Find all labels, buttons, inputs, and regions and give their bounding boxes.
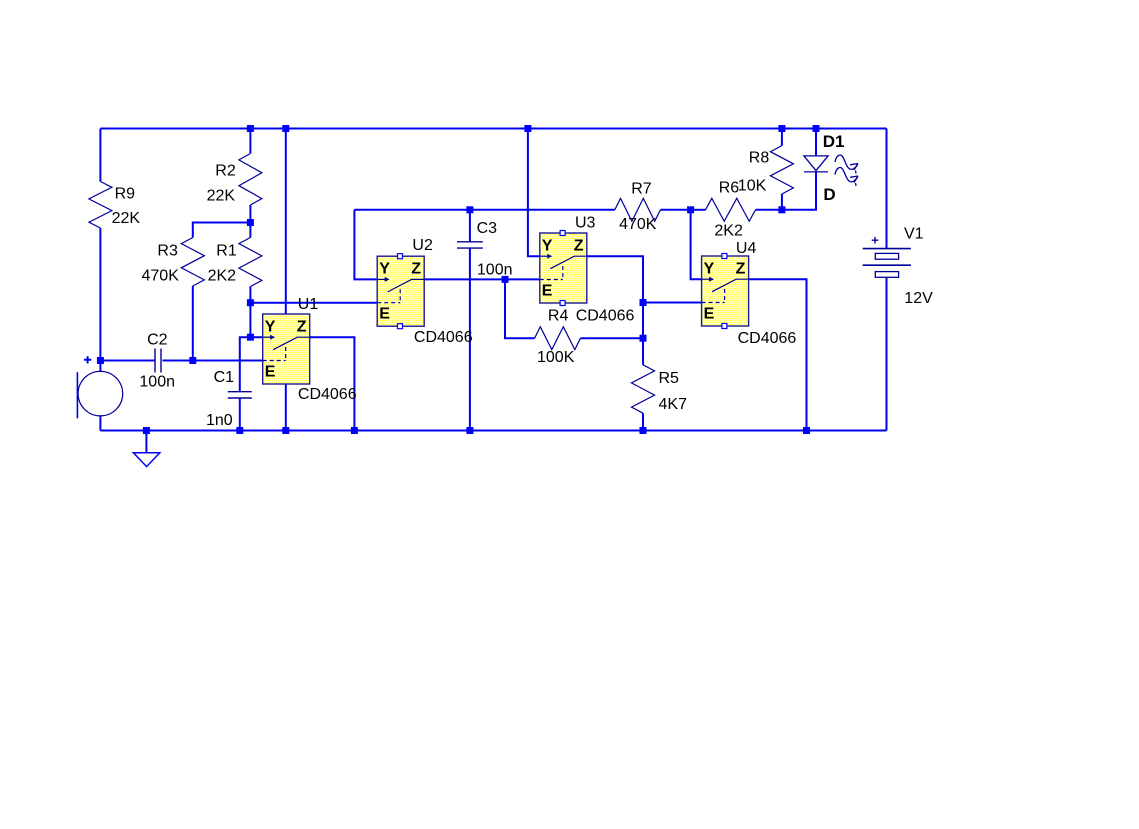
svg-text:12V: 12V [904, 290, 933, 307]
battery plus sign [872, 237, 879, 244]
wire U1 Y node to C1 top [240, 337, 251, 392]
svg-text:4K7: 4K7 [659, 396, 688, 413]
wire node to R3 top [193, 223, 251, 238]
resistor R6 [706, 198, 756, 221]
svg-text:R1: R1 [216, 243, 237, 260]
label U2 [412, 237, 433, 254]
wire U1 bottom pin to rail [285, 384, 287, 431]
svg-text:U1: U1 [298, 296, 319, 313]
diode D1 [804, 156, 828, 172]
resistor R3 [181, 238, 204, 287]
wire R9 bottom lead to mic node [99, 228, 101, 361]
junction ground rail / U1 Z [351, 427, 358, 434]
svg-text:Y: Y [379, 261, 390, 278]
junction ground rail / U4 Z [803, 427, 810, 434]
wire battery negative lead [886, 277, 888, 430]
type CD4066 of U3 [576, 308, 635, 325]
svg-text:CD4066: CD4066 [576, 308, 635, 325]
svg-text:U4: U4 [736, 240, 757, 257]
junction R6-R8-D1 node [778, 206, 785, 213]
svg-text:E: E [704, 305, 715, 322]
wire mid rail: U2 Y riser to R7 [354, 209, 614, 211]
svg-text:100K: 100K [537, 349, 575, 366]
type CD4066 of U2 [414, 329, 473, 346]
svg-text:CD4066: CD4066 [298, 386, 357, 403]
wire R4 right lead to node [581, 337, 644, 339]
wire C1 bottom lead [239, 398, 241, 431]
wire C3 bottom lead to ground rail [469, 248, 471, 430]
U3 unconnected pin markers [560, 231, 565, 306]
wire ground stem [145, 431, 147, 453]
junction mic plus node [97, 357, 104, 364]
value 2K2 of R1 [208, 268, 237, 285]
svg-text:CD4066: CD4066 [738, 330, 797, 347]
label U3 [575, 214, 596, 231]
value 100K of R4 [537, 349, 575, 366]
junction ground rail / R5 [640, 427, 647, 434]
wire mic plus stem [99, 361, 101, 373]
U4 unconnected pin markers [722, 254, 727, 329]
junction ground rail / C1 [236, 427, 243, 434]
resistor R9 [89, 182, 112, 229]
resistor R1 [239, 238, 262, 287]
svg-text:R4: R4 [548, 308, 569, 325]
wire R1 bottom lead [249, 287, 251, 303]
svg-text:Y: Y [704, 260, 715, 277]
junction top rail / D1 [813, 125, 820, 132]
wire node 505 down to R4 left [505, 279, 535, 338]
resistor R8 [770, 146, 793, 194]
wire node 505 to U3 E pin [505, 278, 540, 280]
wire bottom ground rail [100, 430, 886, 432]
junction top rail / U3 drop [524, 125, 531, 132]
capacitor C3 [457, 242, 483, 248]
wire U2 Y pin from mid rail [354, 210, 390, 280]
junction R1 bottom / U1 wire [247, 299, 254, 306]
wire node U1: R1 bottom to U2 E pin [250, 302, 377, 304]
label R3 [157, 243, 178, 260]
wire U4 E node to U4 E pin [643, 302, 702, 304]
resistor R7 [615, 198, 661, 221]
svg-text:2K2: 2K2 [714, 223, 743, 240]
svg-text:E: E [265, 363, 276, 380]
svg-text:Z: Z [574, 237, 584, 254]
value 2K2 of R6 [714, 223, 743, 240]
battery V1 [863, 249, 911, 278]
analog switch U2 [377, 256, 424, 326]
wire R6 right lead to R8 node [756, 209, 782, 211]
junction ground rail / C3 [466, 427, 473, 434]
svg-text:10K: 10K [738, 177, 767, 194]
label R1 [216, 243, 237, 260]
U2 unconnected pin markers [398, 254, 403, 329]
label R7 [631, 181, 652, 198]
resistor R4 [535, 327, 581, 350]
label C1 [214, 369, 235, 386]
wire battery positive lead [886, 129, 888, 249]
type CD4066 of U4 [738, 330, 797, 347]
label R8 [749, 149, 770, 166]
svg-text:D1: D1 [823, 132, 845, 151]
microphone MIC1 body [78, 371, 123, 416]
junction U3 Z / U4 E node [640, 299, 647, 306]
value 4K7 of R5 [659, 396, 688, 413]
wire R1 node down to U1 Y node [249, 303, 251, 338]
label C2 [147, 332, 168, 349]
svg-text:R5: R5 [659, 370, 680, 387]
svg-text:V1: V1 [904, 226, 924, 243]
svg-text:E: E [379, 306, 390, 323]
value 1n0 of C1 [206, 412, 233, 429]
value 100n of C3 [477, 261, 513, 278]
wire top power rail [100, 128, 886, 130]
svg-text:Z: Z [297, 318, 307, 335]
label D1 [823, 132, 845, 151]
svg-text:C2: C2 [147, 332, 168, 349]
wire R8 bottom lead [781, 194, 783, 210]
svg-text:Z: Z [736, 260, 746, 277]
wire C2 row: mic node to C2 left plate [100, 360, 154, 362]
wire R1 top lead [249, 223, 251, 238]
resistor R5 [632, 365, 655, 413]
junction top rail / R2 [247, 125, 254, 132]
label R4 [548, 308, 569, 325]
junction R3 bottom / C2 row [189, 357, 196, 364]
junction U2 Z / U3 E / R4 node [502, 276, 509, 283]
wire U3 Y drop from top rail [528, 129, 553, 257]
pin label D of D1 [823, 185, 835, 204]
wire C3 top lead [469, 210, 471, 242]
wire R2 top lead [249, 129, 251, 154]
svg-text:R7: R7 [631, 181, 652, 198]
svg-text:R9: R9 [115, 186, 136, 203]
label U4 [736, 240, 757, 257]
wire U1 top pin from rail [285, 129, 287, 315]
svg-text:Y: Y [265, 318, 276, 335]
svg-text:Z: Z [411, 261, 421, 278]
junction mid rail / C3 [466, 206, 473, 213]
wire mic bottom lead [99, 416, 101, 431]
analog switch U1 [263, 314, 310, 384]
svg-text:470K: 470K [619, 216, 657, 233]
label U1 [298, 296, 319, 313]
junction R4-R5 node [640, 335, 647, 342]
wire U4 E node down to R4 node [642, 303, 644, 339]
wire U1 Z output down to ground rail [310, 337, 355, 430]
capacitor C1 [228, 392, 252, 398]
label R2 [215, 162, 236, 179]
junction ground rail / U1 bottom [282, 427, 289, 434]
junction ground rail / ground symbol [143, 427, 150, 434]
svg-text:1n0: 1n0 [206, 412, 233, 429]
junction R2-R1-R3 node [247, 219, 254, 226]
wire node to R6 left lead [691, 209, 706, 211]
microphone MIC1 side bar [76, 372, 78, 418]
LED light arrow 1 [835, 155, 858, 173]
microphone plus terminal [84, 356, 91, 363]
junction U1 Y node [247, 334, 254, 341]
resistor R2 [239, 154, 262, 206]
svg-text:D: D [823, 185, 835, 204]
svg-text:R8: R8 [749, 149, 770, 166]
svg-text:C3: C3 [477, 220, 498, 237]
value 470K of R3 [142, 268, 180, 285]
wire R7 right lead to node [660, 209, 690, 211]
value 470K of R7 [619, 216, 657, 233]
svg-text:U3: U3 [575, 214, 596, 231]
svg-text:C1: C1 [214, 369, 235, 386]
svg-text:CD4066: CD4066 [414, 329, 473, 346]
svg-text:22K: 22K [112, 210, 141, 227]
value 10K of R8 [738, 177, 767, 194]
type CD4066 of U1 [298, 386, 357, 403]
wire R4 node down to R5 top [642, 338, 644, 365]
svg-text:R3: R3 [157, 243, 178, 260]
LED light arrow 2 [835, 168, 858, 186]
junction top rail / U1 top [282, 125, 289, 132]
wire U3 Z output to U4 E node [587, 256, 643, 302]
svg-text:R2: R2 [215, 162, 236, 179]
wire D1 anode lead [815, 129, 817, 156]
junction top rail / R8 [778, 125, 785, 132]
wire R9 top lead [99, 129, 101, 182]
svg-text:R6: R6 [719, 179, 740, 196]
wire R8 node to D1 cathode [782, 172, 816, 210]
label C3 [477, 220, 498, 237]
ground [133, 453, 159, 467]
value 22K of R2 [207, 187, 236, 204]
wire R2 bottom lead to node [249, 205, 251, 223]
wire U4 Z output down to ground rail [749, 279, 807, 430]
value 22K of R9 [112, 210, 141, 227]
svg-text:22K: 22K [207, 187, 236, 204]
svg-text:E: E [542, 282, 553, 299]
svg-text:470K: 470K [142, 268, 180, 285]
label R9 [115, 186, 136, 203]
wire R8 top lead [781, 129, 783, 146]
svg-text:100n: 100n [139, 374, 175, 391]
svg-text:U2: U2 [412, 237, 433, 254]
wire R5 bottom lead [642, 413, 644, 430]
label R5 [659, 370, 680, 387]
wire U2 Z to node 505 [424, 278, 505, 280]
svg-text:2K2: 2K2 [208, 268, 237, 285]
value 100n of C2 [139, 374, 175, 391]
junction R7-R6 / U4 Y drop [687, 206, 694, 213]
wire C2 right plate to R3 node and U1 E pin [163, 360, 263, 362]
label R6 [719, 179, 740, 196]
capacitor C2 [155, 349, 161, 373]
svg-text:Y: Y [542, 237, 553, 254]
analog switch U3 [540, 233, 587, 303]
wire R3 bottom lead [192, 286, 194, 361]
analog switch U4 [702, 256, 749, 326]
value 12V of V1 [904, 290, 933, 307]
label V1 [904, 226, 924, 243]
svg-text:100n: 100n [477, 261, 513, 278]
wire U4 Y drop from R6 node [691, 210, 715, 279]
wire U1 Y node to U1 Y pin [250, 336, 275, 338]
